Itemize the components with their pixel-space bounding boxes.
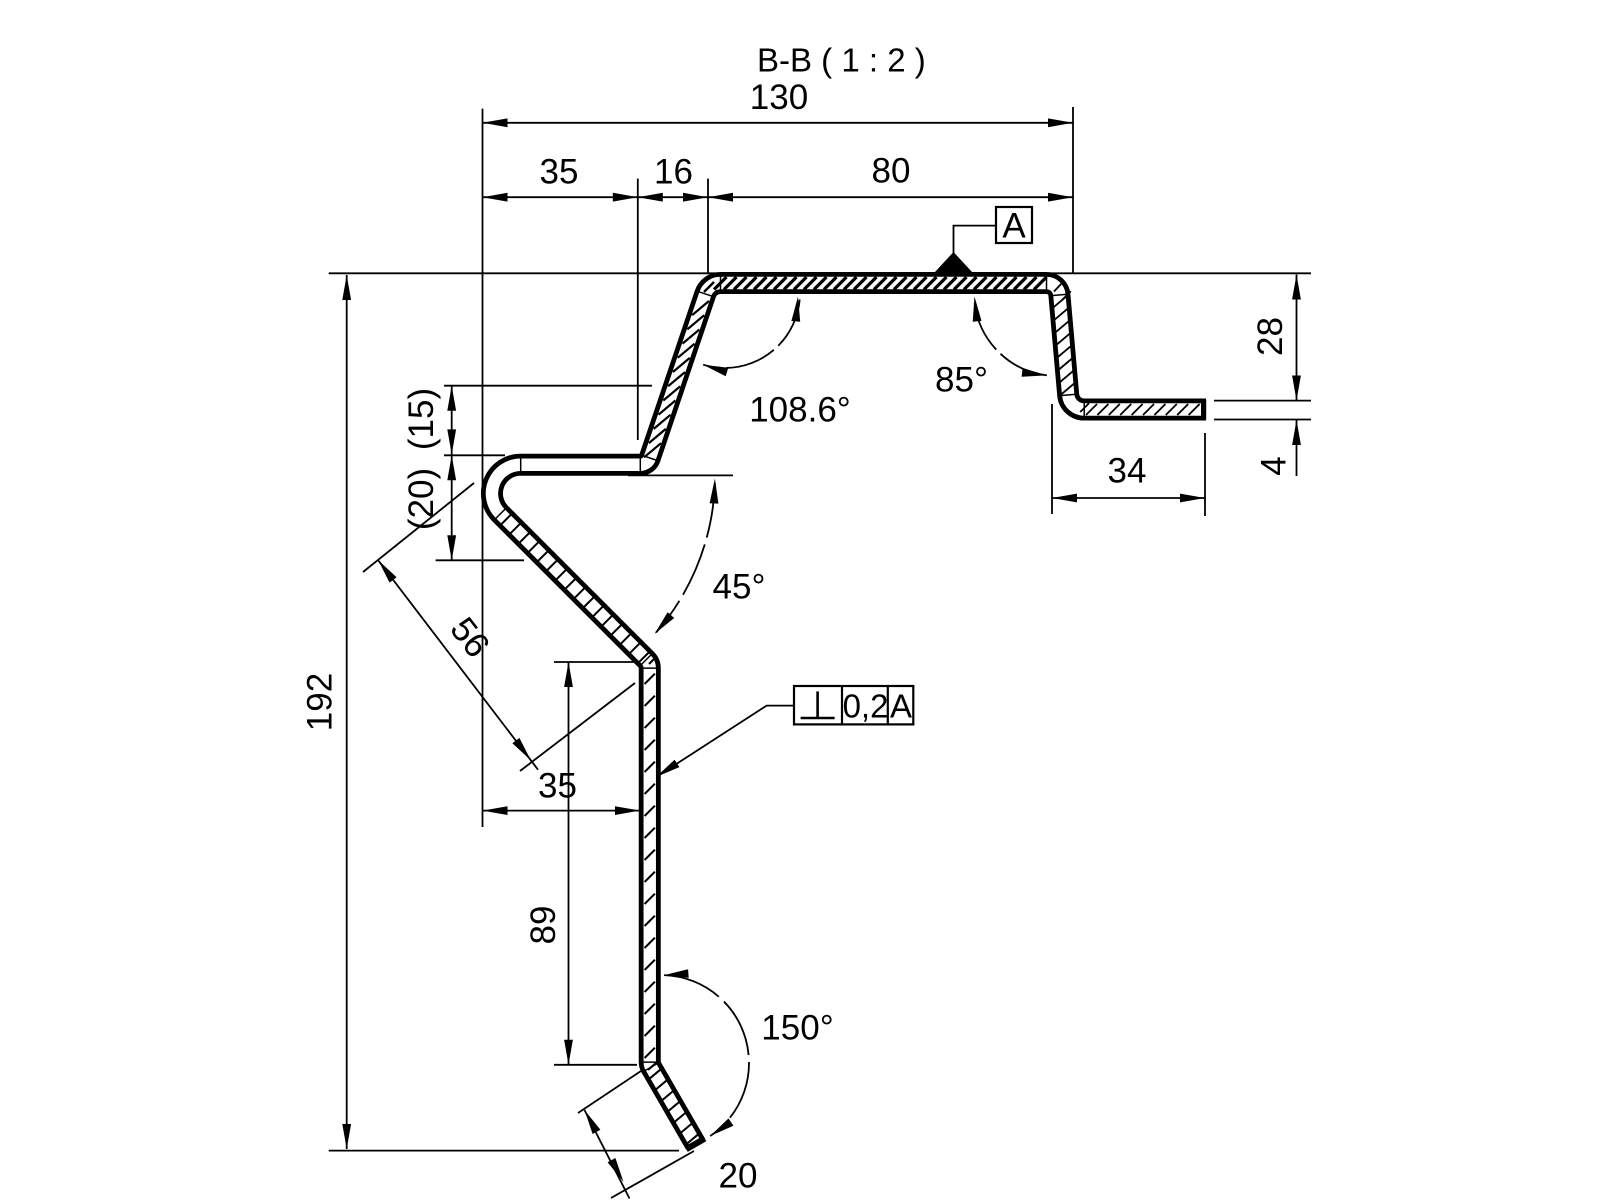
- extension line x=637.8: [637, 179, 639, 440]
- extension line y=560.3 for (20): [436, 559, 524, 561]
- extension line x=1073 (right end of 130/80): [1072, 107, 1074, 274]
- svg-text:130: 130: [750, 78, 808, 117]
- svg-text:16: 16: [654, 152, 693, 191]
- svg-text:A: A: [1002, 206, 1026, 245]
- svg-text:0,2: 0,2: [843, 688, 889, 725]
- extension line y=419.5 flange bottom right: [1214, 419, 1311, 421]
- section hatching ticks: [501, 277, 1200, 1145]
- datum A leader: [954, 226, 997, 253]
- svg-text:150°: 150°: [761, 1008, 833, 1047]
- dimension 28: [1296, 275, 1298, 401]
- dimension 35 (top): [483, 196, 638, 198]
- svg-text:108.6°: 108.6°: [749, 390, 851, 429]
- dimension (15): [451, 386, 453, 455]
- top reference extension line (datum A level): [329, 272, 1311, 274]
- extension line y=662 for 89 top: [554, 661, 634, 663]
- svg-text:4: 4: [1254, 456, 1293, 475]
- angle dimension 108.6 deg arc: [703, 300, 800, 368]
- extension line for 20 lower: [611, 1151, 694, 1198]
- dimension 56 (oblique): [378, 560, 538, 770]
- extension line for 20 upper: [578, 1071, 641, 1113]
- dimension 130: [483, 122, 1074, 124]
- extension line y=400.6 flange top right: [1214, 400, 1311, 402]
- sheet metal profile core (white): [492, 283, 1206, 1144]
- svg-text:45°: 45°: [713, 567, 766, 606]
- svg-text:34: 34: [1108, 451, 1147, 490]
- svg-text:89: 89: [524, 906, 563, 945]
- svg-text:B-B ( 1 : 2 ): B-B ( 1 : 2 ): [757, 42, 926, 79]
- extension line x=708: [707, 179, 709, 273]
- angle dimension 45 deg arc: [656, 483, 715, 632]
- extension line x=482.5 (left of hairpin bend): [482, 109, 484, 827]
- svg-text:A: A: [890, 688, 912, 725]
- angle dimension 85 deg arc: [974, 300, 1047, 375]
- svg-text:80: 80: [872, 151, 911, 190]
- extension line x=1052 for 34: [1051, 404, 1053, 514]
- dimension 20 (oblique): [585, 1110, 630, 1199]
- dimension 34: [1052, 497, 1205, 499]
- FCF frame: [794, 686, 913, 724]
- horizontal reference line for 45 deg angle: [628, 474, 733, 476]
- datum A box: [996, 207, 1032, 243]
- dimension 4: [1296, 420, 1298, 476]
- angle dimension 150 deg arc: [664, 975, 749, 1136]
- sheet metal profile outer (black band): [492, 283, 1206, 1144]
- svg-text:85°: 85°: [935, 360, 988, 399]
- svg-text:20: 20: [719, 1156, 758, 1195]
- svg-text:192: 192: [300, 673, 339, 731]
- svg-text:(20): (20): [402, 468, 441, 530]
- dimension 80: [708, 196, 1073, 198]
- dimension 35 (lower): [483, 810, 641, 812]
- bend tangent lines: [494, 274, 1084, 1072]
- dimension 89: [568, 662, 570, 1065]
- svg-text:35: 35: [540, 152, 579, 191]
- perpendicularity symbol: [816, 691, 819, 718]
- svg-text:28: 28: [1251, 317, 1290, 356]
- svg-text:35: 35: [538, 766, 577, 805]
- datum A triangle: [935, 252, 973, 273]
- extension line for 56 upper: [363, 483, 474, 572]
- dimension 192: [346, 275, 348, 1149]
- bottom extension line y=1150.6 for 192: [329, 1150, 679, 1152]
- flange end cap: [1201, 400, 1206, 420]
- extension line for 56 lower: [520, 683, 635, 771]
- extension line y=1064.8 for 89 bottom: [554, 1064, 637, 1066]
- dimension 16: [638, 196, 708, 198]
- svg-text:(15): (15): [402, 388, 441, 450]
- dimension (20): [451, 455, 453, 560]
- extension line x=1205 for 34: [1204, 433, 1206, 516]
- FCF leader: [657, 706, 794, 777]
- extension line y=455.3 shelf top: [444, 454, 505, 456]
- extension line y=385.7 for (15): [444, 385, 652, 387]
- tail end cap: [686, 1139, 705, 1150]
